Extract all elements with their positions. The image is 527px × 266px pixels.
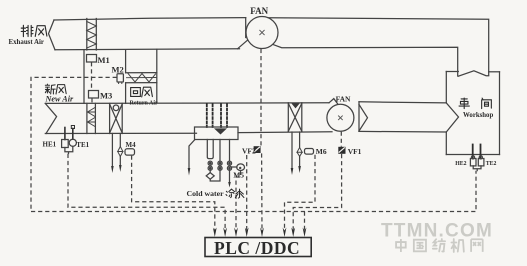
wire cold water aux to PLC (246, 155, 248, 231)
wire bottom bus to HE2TE2 (31, 171, 476, 212)
spray pipes dotted (207, 104, 227, 127)
actuator M3 (89, 91, 99, 99)
wire exhaust duct bottom line (55, 49, 240, 50)
wire top-right duct bottom line (273, 44, 458, 76)
actuator M5 (237, 164, 245, 171)
label paifeng CJK (21, 25, 47, 36)
mixing box (84, 50, 126, 103)
label xinfeng CJK (45, 84, 66, 94)
wire M1 to M3 link (91, 62, 94, 104)
wire HE1TE1 to PLC (68, 154, 225, 231)
svg-text:VF2: VF2 (242, 146, 256, 155)
damper D3 new-air blades (87, 103, 96, 133)
switch VF1 (338, 147, 345, 154)
wire duct fan2 to workshop bottom (359, 130, 446, 133)
switch VF2 (254, 146, 261, 153)
valve chain B (218, 140, 222, 171)
node sensor bracket HE1-TE1 (65, 146, 73, 153)
wire M2-M1-M3 to PLC via left riser (31, 77, 117, 211)
wire fan2 VF1 to PLC (293, 132, 341, 231)
svg-text:M5: M5 (233, 171, 244, 180)
drain pipes under filter F1 (111, 134, 122, 174)
control wiring dashed network (31, 49, 476, 231)
svg-text:M3: M3 (100, 90, 112, 100)
svg-text:HE2: HE2 (455, 161, 466, 167)
fan FAN1 (238, 17, 279, 49)
valve chain A (206, 161, 220, 181)
svg-text:Workshop: Workshop (463, 112, 493, 119)
svg-text:M4: M4 (126, 141, 137, 149)
svg-text:M2: M2 (112, 64, 124, 74)
damper D2 return-air section (126, 73, 157, 83)
svg-text:PLC /DDC: PLC /DDC (214, 238, 300, 258)
wire exhaust duct top line (54, 18, 246, 20)
node sensor bracket HE2-TE2 (473, 166, 481, 171)
svg-text:Return Air: Return Air (130, 100, 159, 106)
spray chamber box (156, 49, 158, 103)
sensor TE2 (478, 145, 484, 166)
wire M4 to PLC (132, 156, 215, 231)
wire supply duct top line (45, 102, 329, 105)
label huifeng CJK (131, 87, 153, 97)
damper D1 exhaust branch (87, 19, 97, 51)
node exhaust outlet flag (49, 20, 56, 50)
wire duct fan2 to workshop top (359, 102, 446, 103)
node supply inlet flag into workshop (446, 103, 458, 132)
filter F1 x-box (110, 103, 123, 133)
filter F2 x-box supply (288, 103, 302, 132)
svg-text:TTMN.COM: TTMN.COM (381, 221, 493, 242)
actuator M2 (117, 74, 123, 84)
svg-text:VF1: VF1 (348, 147, 362, 156)
sensor HE1 (62, 128, 69, 148)
fan FAN2 (327, 99, 368, 132)
svg-text:HE1: HE1 (43, 140, 57, 148)
wire bus drop to PLC (304, 212, 306, 232)
controller PLC/DDC box (205, 238, 311, 257)
wire M6 to PLC (285, 155, 316, 231)
valve chain C with M5 (227, 140, 237, 188)
svg-text:Cold water: Cold water (187, 189, 225, 198)
water tank (195, 127, 239, 140)
svg-text:Exhaust Air: Exhaust Air (9, 39, 44, 46)
actuator M4 (125, 149, 135, 155)
watermark zhongguofangjiwang CJK (396, 239, 483, 252)
svg-text:FAN: FAN (250, 6, 268, 16)
label lengshui CJK (226, 189, 244, 198)
valve V-M4 (118, 147, 123, 157)
svg-text:M1: M1 (98, 55, 110, 65)
wire top-right duct top line (268, 18, 489, 75)
wire fan1 VF2 to PLC (261, 49, 262, 231)
node new air inlet flag (45, 103, 56, 133)
tank drain arrow (188, 140, 195, 176)
drain pipes under filter F2 (291, 132, 301, 175)
svg-text:M6: M6 (316, 147, 327, 156)
sensor TE1 (69, 126, 76, 147)
sensor HE2 (470, 145, 476, 166)
label chejian CJK (459, 98, 491, 109)
svg-text:TE2: TE2 (486, 161, 497, 167)
wire M5 to PLC (236, 171, 241, 231)
actuator M6 (305, 149, 314, 155)
svg-text:New Air: New Air (45, 95, 74, 104)
pipe pair below tank (207, 140, 213, 159)
svg-text:FAN: FAN (336, 94, 351, 103)
valve V-M6 (297, 148, 302, 157)
wire supply duct bottom line right (238, 131, 332, 134)
svg-text:TE1: TE1 (76, 141, 89, 149)
actuator M1 (87, 55, 97, 63)
PLC input arrowheads (213, 228, 307, 238)
workshop box (446, 71, 499, 155)
wire supply duct bottom line left (45, 132, 196, 134)
